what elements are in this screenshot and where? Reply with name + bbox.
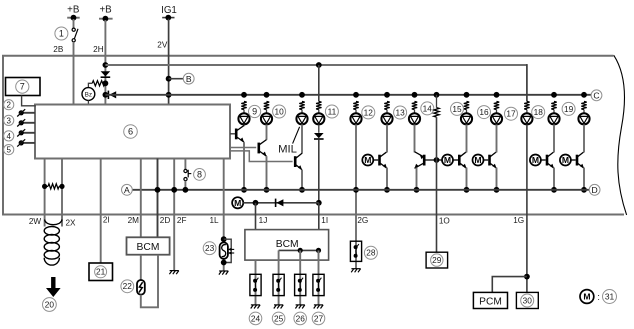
wire to node B <box>169 78 184 80</box>
transistor Q2 for lamp 10 <box>257 143 260 154</box>
transistor Q15 <box>458 155 461 166</box>
collector wire lamp 16 <box>496 124 498 152</box>
wire lamp 11 to diode <box>318 124 320 132</box>
component label 16 <box>478 106 491 119</box>
svg-text:2W: 2W <box>29 217 42 226</box>
transistor Q for lamp 16 <box>488 155 491 166</box>
wire diode 11 down to turn-signal line <box>318 140 320 203</box>
svg-text:1O: 1O <box>439 217 450 226</box>
indicator lamp 13 branch: junction on bus <box>384 92 390 98</box>
junction switch 8 / ground bus <box>183 187 189 193</box>
indicator lamp 11 <box>313 113 324 124</box>
resistor of MIL lamp <box>299 101 304 109</box>
BCM box (left) <box>127 237 170 254</box>
base wire Q14 to shared node <box>426 159 443 161</box>
wire 1I from lamp 11 line to BCM <box>318 203 320 230</box>
svg-text:12: 12 <box>364 107 374 117</box>
component label 19 <box>562 102 575 115</box>
ignition terminal IG1 <box>162 17 174 19</box>
svg-text:1L: 1L <box>209 216 219 225</box>
junction Q1 emitter / bus <box>241 187 247 193</box>
lamp 22 (bulb capsule) <box>137 280 145 295</box>
power terminal +B (first) <box>67 17 80 19</box>
node B <box>183 73 194 84</box>
resistor of lamp 19 <box>581 101 586 109</box>
svg-text:8: 8 <box>197 169 202 179</box>
svg-text:M: M <box>364 155 371 165</box>
component label 22 <box>121 280 134 293</box>
svg-text:22: 22 <box>123 281 133 291</box>
svg-text:27: 27 <box>314 313 324 323</box>
component label 13 <box>394 106 407 119</box>
unit 29 box <box>426 252 448 268</box>
wire buzzer to unit 6 <box>87 100 89 104</box>
component label 30 <box>521 294 534 307</box>
BCM box (right) <box>245 230 329 261</box>
emitter wire lamp 19 to ground bus A-D <box>583 168 585 190</box>
junction Q3 emitter / bus <box>299 187 305 193</box>
svg-text:C: C <box>593 90 599 100</box>
svg-text:11: 11 <box>328 106 337 116</box>
svg-text:26: 26 <box>296 313 306 323</box>
turn flasher motor output M <box>232 197 243 208</box>
collector wire lamp 19 <box>583 124 585 152</box>
junction emitter 18 / bus <box>551 187 557 193</box>
diode on 2H branch (down) <box>101 71 111 76</box>
junction 1J / turn line <box>253 200 259 206</box>
collector wire MIL lamp to Q3 <box>301 124 303 153</box>
svg-text:30: 30 <box>523 295 533 305</box>
svg-text:2X: 2X <box>65 219 76 228</box>
emitter wire Q1 to ground bus A-D <box>243 142 245 190</box>
svg-text:25: 25 <box>274 313 284 323</box>
immobilizer antenna coil <box>45 220 62 225</box>
wire resistor to buzzer <box>88 83 92 87</box>
resistor of lamp 11 <box>316 101 321 109</box>
junction emitter 13 / bus <box>384 187 390 193</box>
svg-text:2F: 2F <box>177 216 187 225</box>
indicator lamp 14 <box>409 113 420 124</box>
indicator lamp 13 <box>381 113 392 124</box>
arrows at lamp 23 <box>228 248 232 251</box>
component label 8 <box>194 169 206 181</box>
wire from unit 6 to switch 8 <box>184 159 186 170</box>
component label 15 <box>451 102 464 115</box>
collector wire lamp 15 <box>466 124 468 152</box>
indicator lamp 15 branch: junction on bus <box>464 92 470 98</box>
wire 2I from unit 6 to unit 21 <box>100 159 102 264</box>
component label 21 <box>95 266 107 278</box>
emitter wire Q3 to ground bus A-D <box>301 170 303 190</box>
collector wire lamp 13 <box>386 124 388 152</box>
emitter wire Q14 to ground bus A-D <box>416 168 418 190</box>
node D <box>589 184 600 195</box>
svg-text:9: 9 <box>252 106 257 116</box>
component label 10 <box>273 105 286 118</box>
svg-text:M: M <box>474 155 481 165</box>
junction 1G / PCM stub <box>524 274 530 280</box>
svg-text:M: M <box>532 155 539 165</box>
svg-text:18: 18 <box>534 107 544 117</box>
ground at sensor 25 <box>274 305 283 309</box>
svg-text:19: 19 <box>564 104 574 114</box>
resistor of lamp 18 <box>551 101 556 109</box>
svg-text:A: A <box>124 185 130 195</box>
unit 30 box <box>516 292 538 308</box>
indicator lamp 15 <box>461 113 472 124</box>
sensor switch 24 <box>250 274 261 295</box>
node C <box>591 90 602 101</box>
svg-text:+B: +B <box>67 5 80 16</box>
ground at sensor 24 <box>251 305 260 309</box>
junction emitter 16 / bus <box>494 187 500 193</box>
wire 1J from turn line to BCM <box>255 203 257 230</box>
motor meter output for lamp 13 <box>362 155 373 166</box>
ground at sensor 28 <box>351 269 360 273</box>
base wire M to Q15 <box>453 159 458 161</box>
component label 18 <box>532 106 545 119</box>
svg-text:10: 10 <box>274 106 284 116</box>
combination meter unit 6 <box>35 105 230 159</box>
lamp 23 (security indicator capsule) <box>220 242 228 258</box>
unit 21 box <box>89 263 113 281</box>
resistor of lamp 10 <box>264 101 269 109</box>
turn line wire <box>243 202 318 204</box>
MIL lamp branch: junction on bus <box>299 92 305 98</box>
indicator lamp 14 branch: junction on bus <box>412 92 418 98</box>
resistor between 2W and 2X <box>48 184 59 189</box>
wire 2H vertical from +B to unit 6 <box>104 20 106 105</box>
collector wire lamp 14 to Q14 <box>414 124 416 152</box>
junction 2H / lamp bus <box>103 92 109 98</box>
warning lamp 9 <box>238 113 249 124</box>
indicator lamp 11 branch: junction on feeder bus <box>316 62 322 68</box>
wire 2X from unit 6 <box>61 159 63 227</box>
resistor of lamp 17 (fed from +B feeder) <box>524 101 529 109</box>
transistor Q1 for lamp 9 <box>243 124 245 126</box>
diode under lamp 11 (down) <box>314 133 324 138</box>
svg-text:BCM: BCM <box>276 239 299 250</box>
svg-text:7: 7 <box>20 82 25 92</box>
wire 2D from unit 6 to BCM <box>157 159 159 238</box>
resistor of buzzer <box>92 81 105 86</box>
component label 24 <box>249 312 262 325</box>
junction internal 26 <box>298 248 303 253</box>
warning lamp 10 <box>261 113 272 124</box>
emitter wire lamp 18 to ground bus A-D <box>553 168 555 190</box>
svg-text:Bz: Bz <box>85 92 92 99</box>
component label 29 <box>431 254 443 266</box>
svg-text:2B: 2B <box>53 45 64 54</box>
svg-text:M: M <box>234 198 241 208</box>
emitter wire lamp 16 to ground bus A-D <box>496 168 498 190</box>
resistor of lamp 12 <box>353 101 358 109</box>
wire 1L from unit 6 to lamp 23 <box>223 159 225 272</box>
feeder bus wire from +B (top horizontal) <box>105 64 527 66</box>
internal wire of BCM <box>279 249 319 251</box>
collector wire lamp 10 to Q2 <box>266 124 268 139</box>
unit 7 box <box>6 78 41 96</box>
junction 2X resistor <box>59 184 64 189</box>
ground bus from node A to node D <box>132 189 589 191</box>
arrow to transponder key <box>46 277 61 297</box>
component label 20 <box>43 298 57 312</box>
sensor switch 28 <box>350 241 361 261</box>
transistor Q14 (mirrored) <box>423 155 426 166</box>
component label 25 <box>272 312 285 325</box>
svg-text:2M: 2M <box>128 216 140 225</box>
junction lamp 11 line / turn line <box>316 200 322 206</box>
wire 2F from unit 6 to ground <box>173 159 175 271</box>
ground at sensor 27 <box>314 305 323 309</box>
svg-text:24: 24 <box>251 313 261 323</box>
indicator lamp 16 branch: junction on bus <box>494 92 500 98</box>
lamp supply bus to node C <box>105 94 591 96</box>
wire to sensor 27 <box>318 250 320 305</box>
junction 2W resistor <box>42 184 47 189</box>
junction lamp 12 wire / ground bus A-D <box>353 187 359 193</box>
base wire from unit 6 to Q1 <box>230 133 235 135</box>
node A <box>122 184 133 195</box>
feeder bus drop to lamp 17 branch <box>526 64 528 101</box>
base wire M to Q16 <box>484 159 489 161</box>
indicator lamp 12 <box>350 113 361 124</box>
svg-text:1G: 1G <box>513 216 524 225</box>
junction lamp 23 top <box>221 236 227 242</box>
indicator lamp 19 <box>578 113 589 124</box>
parallel path of lamp 23 <box>224 239 232 262</box>
transistor Q for lamp 19 <box>576 155 579 166</box>
junction 2H / feeder bus <box>103 62 109 68</box>
component label 1 <box>55 27 68 40</box>
svg-text:2I: 2I <box>103 216 110 225</box>
component label 28 <box>364 246 377 259</box>
svg-text:3: 3 <box>6 116 11 125</box>
component label 11 <box>325 105 338 118</box>
svg-text:PCM: PCM <box>479 296 502 307</box>
svg-text:17: 17 <box>506 109 516 119</box>
wire 2M from unit 6 to BCM <box>140 159 142 238</box>
svg-text:M: M <box>562 155 569 165</box>
ground at lamp 23 <box>219 271 228 275</box>
sensor input 5 <box>4 145 14 155</box>
motor meter output for lamp 19 <box>560 155 571 166</box>
component label 23 <box>203 242 216 255</box>
sensor input 3 <box>4 115 14 125</box>
legend: M symbol is component 31 <box>580 290 594 304</box>
wire 2B from switch into cluster to unit 6 <box>73 42 75 105</box>
wire +B to switch 1 <box>73 19 75 28</box>
wire 2V vertical from IG1 to unit 6 <box>168 19 170 105</box>
sensor input 4 <box>4 131 14 141</box>
wire 1G from lamp 17 down to PCM junction <box>526 124 528 292</box>
PCM box <box>473 292 507 308</box>
svg-text:+B: +B <box>99 5 112 16</box>
base wire M to Q13 <box>373 159 378 161</box>
wire 1O from node down to unit 29 <box>436 117 438 252</box>
indicator lamp 17 <box>521 113 532 124</box>
indicator lamp 16 <box>491 113 502 124</box>
svg-text:20: 20 <box>45 299 55 309</box>
svg-text:2H: 2H <box>93 45 104 54</box>
wire to sensor 26 <box>299 250 301 305</box>
indicator lamp 19 branch: junction on bus <box>581 92 587 98</box>
indicator lamp 18 <box>548 113 559 124</box>
svg-text:2D: 2D <box>160 216 171 225</box>
emitter wire Q2 to ground bus A-D <box>266 156 268 190</box>
diode feeding lamp bus (points left) <box>109 91 116 98</box>
switch 8 (parking brake style switch) <box>184 169 187 172</box>
indicator lamp 12 branch: junction on bus <box>353 92 359 98</box>
power terminal +B (second) <box>99 18 113 20</box>
wire lamp 22 loop back to BCM <box>141 255 158 308</box>
junction emitter 19 / bus <box>581 187 587 193</box>
warning lamp 10 branch: junction on bus <box>264 92 270 98</box>
wire 2W from unit 6 <box>44 159 46 227</box>
component label 6 <box>124 125 138 139</box>
collector wire lamp 18 <box>553 124 555 152</box>
svg-text:2: 2 <box>6 101 11 110</box>
junction Q2 emitter / bus <box>264 187 270 193</box>
malfunction indicator lamp MIL <box>296 113 307 124</box>
emitter wire lamp 15 to ground bus A-D <box>466 168 468 190</box>
motor meter output for lamp 18 <box>530 155 541 166</box>
junction 2F / ground bus <box>171 187 177 193</box>
resistor of lamp 16 <box>494 101 499 109</box>
transistor Q for lamp 13 <box>378 155 381 166</box>
svg-text:16: 16 <box>479 107 489 117</box>
junction 2V / lamp bus <box>166 92 172 98</box>
svg-text:M: M <box>583 292 590 302</box>
base wire M to Q18 <box>541 159 546 161</box>
svg-text:29: 29 <box>432 255 442 265</box>
diode on turn line (points left) <box>276 199 283 206</box>
wire BCM to lamp 22 <box>140 255 142 281</box>
base wire from unit 6 to Q3 <box>230 151 293 162</box>
base pull resistor branch: junction on bus <box>434 92 440 98</box>
wire 2G from lamp 12 to sensor 28 <box>355 124 357 268</box>
component label 17 <box>505 107 518 120</box>
base wire from unit 6 to Q2 <box>230 147 256 149</box>
svg-text:15: 15 <box>452 104 462 114</box>
resistor of lamp 14 <box>412 101 417 109</box>
svg-text:D: D <box>591 185 597 195</box>
junction 2V / node B stub <box>166 76 172 82</box>
svg-text:1J: 1J <box>259 216 268 225</box>
junction emitter 15 / bus <box>464 187 470 193</box>
wire 1G branch to PCM <box>492 277 527 293</box>
component label 12 <box>362 106 375 119</box>
svg-text:14: 14 <box>423 103 433 113</box>
component label 9 <box>249 105 261 117</box>
shared meter output M for lamps 14/15 <box>442 155 453 166</box>
svg-text:2V: 2V <box>157 41 168 50</box>
switch 1 (key reminder switch) <box>72 28 75 31</box>
resistor of lamp 15 <box>464 101 469 109</box>
svg-text:1: 1 <box>59 28 64 38</box>
transistor Q for lamp 18 <box>546 155 549 166</box>
wire switch 8 to ground bus <box>184 181 186 190</box>
svg-text:21: 21 <box>96 267 106 277</box>
resistor of lamp 9 <box>241 101 246 109</box>
junction 2D / ground bus <box>155 187 161 193</box>
sensor switch 25 <box>273 274 284 295</box>
svg-text:B: B <box>186 74 192 84</box>
junction 2H / buzzer resistor <box>103 80 109 86</box>
junction lamp 23 bottom <box>221 260 227 266</box>
svg-text:13: 13 <box>395 107 405 117</box>
resistor of lamp 13 <box>384 101 389 109</box>
wire unit 7 to unit 6 <box>22 96 36 106</box>
motor meter output for lamp 16 <box>473 155 484 166</box>
wire to sensor 24 <box>255 260 257 305</box>
indicator lamp 18 branch: junction on bus <box>551 92 557 98</box>
sensor switch 26 <box>295 274 306 295</box>
component label 27 <box>312 312 325 325</box>
component label 7 <box>16 80 29 93</box>
buzzer Bz <box>82 88 95 101</box>
sensor switch 27 <box>313 274 324 295</box>
sensor input 2 <box>4 100 14 110</box>
ground at sensor 26 <box>295 305 304 309</box>
junction internal 27 <box>316 248 321 253</box>
svg-text:M: M <box>444 155 451 165</box>
svg-text:BCM: BCM <box>137 242 160 253</box>
base wire M to Q19 <box>571 159 576 161</box>
svg-text:5: 5 <box>6 146 11 155</box>
outer boundary of instrument cluster (torn-edge frame) <box>3 56 624 215</box>
junction shared base node <box>434 157 440 163</box>
component label 26 <box>294 312 307 325</box>
resistor on 1O line <box>434 108 439 118</box>
svg-text::: : <box>597 292 600 302</box>
svg-text:MIL: MIL <box>278 144 297 156</box>
svg-text:6: 6 <box>128 126 133 136</box>
svg-text:4: 4 <box>6 132 11 141</box>
junction Q14 emitter / bus <box>414 187 420 193</box>
warning lamp 9 branch: junction on bus <box>241 92 247 98</box>
svg-text:IG1: IG1 <box>161 5 177 16</box>
transistor Q3 for MIL <box>294 156 297 167</box>
component label 14 <box>421 102 434 115</box>
svg-text:31: 31 <box>605 291 615 301</box>
ground at 2F <box>169 271 178 275</box>
wire to sensor 25 <box>278 250 280 305</box>
emitter wire lamp 13 to ground bus A-D <box>386 168 388 190</box>
svg-text:28: 28 <box>366 248 376 258</box>
wire lamp 11 branch from feeder (crosses lamp bus) <box>318 65 320 101</box>
svg-text:23: 23 <box>205 243 215 253</box>
svg-text:2G: 2G <box>357 216 368 225</box>
svg-text:1I: 1I <box>321 216 328 225</box>
